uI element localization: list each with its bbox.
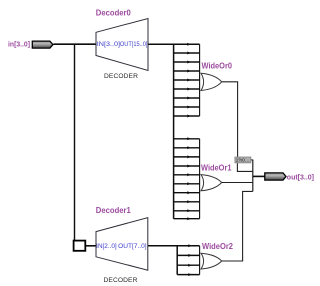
input pin in[3..0] [32, 41, 53, 48]
svg-text:1'h0…: 1'h0… [236, 158, 250, 163]
wire branch bus to Decoder1 [74, 44, 76, 240]
decoder U Decoder0 [96, 19, 148, 71]
wire WideOr1 out [222, 182, 253, 184]
svg-text:OUT[15..0]: OUT[15..0] [120, 41, 148, 48]
rail group2 [199, 139, 201, 219]
svg-text:WideOr1: WideOr1 [201, 164, 232, 173]
wire junction rail [252, 160, 254, 192]
wire WideOr0 out [222, 82, 238, 157]
or-gate WideOr1 [201, 175, 222, 191]
svg-text:DECODER: DECODER [104, 277, 138, 284]
group1 stubs [174, 53, 200, 116]
svg-text:out[3..0]: out[3..0] [287, 172, 315, 181]
svg-text:Decoder1: Decoder1 [96, 206, 132, 215]
svg-text:IN[3..0]: IN[3..0] [97, 41, 121, 48]
wire Decoder0 OUT bus / stub 1 [148, 43, 200, 45]
output pin out[3..0] [265, 173, 286, 180]
group2 stubs [174, 139, 200, 219]
rail group1 [199, 44, 201, 116]
svg-text:WideOr2: WideOr2 [202, 242, 234, 251]
wire tap to Decoder1 [86, 245, 97, 247]
fanout bus vertical [173, 44, 175, 219]
group3 stubs [177, 255, 199, 274]
svg-text:DECODER: DECODER [104, 73, 138, 80]
wire Decoder1 OUT bus / stub 1 [148, 245, 200, 247]
group1 arrowheads [187, 43, 191, 118]
group2 arrowheads [187, 137, 191, 220]
svg-text:in[3..0]: in[3..0] [8, 40, 30, 49]
wire in bus [53, 43, 96, 45]
svg-text:OUT[7..0]: OUT[7..0] [118, 243, 147, 250]
svg-text:Decoder0: Decoder0 [96, 9, 132, 18]
wire box stub [251, 159, 253, 161]
decoder U Decoder1 [96, 218, 148, 271]
svg-text:IN[2..0]: IN[2..0] [96, 243, 117, 250]
wire out bus [253, 175, 265, 177]
wire merge out [237, 163, 252, 171]
or-gate WideOr0 [201, 73, 222, 90]
fanout bus2 vertical [176, 246, 178, 275]
or-gate WideOr2 [201, 253, 222, 269]
bus tap square [74, 241, 86, 251]
svg-text:WideOr0: WideOr0 [202, 62, 233, 71]
merge box [235, 157, 251, 163]
group3 arrowheads [188, 244, 192, 276]
wire WideOr2 out [222, 191, 253, 261]
rail group3 [199, 246, 201, 275]
